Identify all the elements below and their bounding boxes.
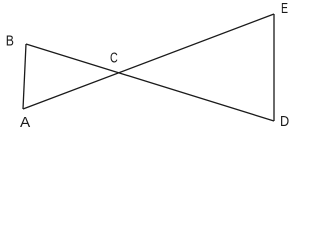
svg-text:A: A bbox=[20, 114, 30, 131]
svg-text:C: C bbox=[110, 50, 118, 67]
wire segment AE (A to E through C) bbox=[23, 14, 274, 109]
svg-text:B: B bbox=[6, 33, 14, 50]
wire segment ED (right edge) bbox=[273, 14, 275, 121]
wire segment BD (B to D through C) bbox=[26, 44, 274, 121]
wire segment AB (left edge) bbox=[23, 44, 26, 109]
svg-text:D: D bbox=[280, 113, 289, 130]
svg-text:E: E bbox=[281, 0, 288, 17]
